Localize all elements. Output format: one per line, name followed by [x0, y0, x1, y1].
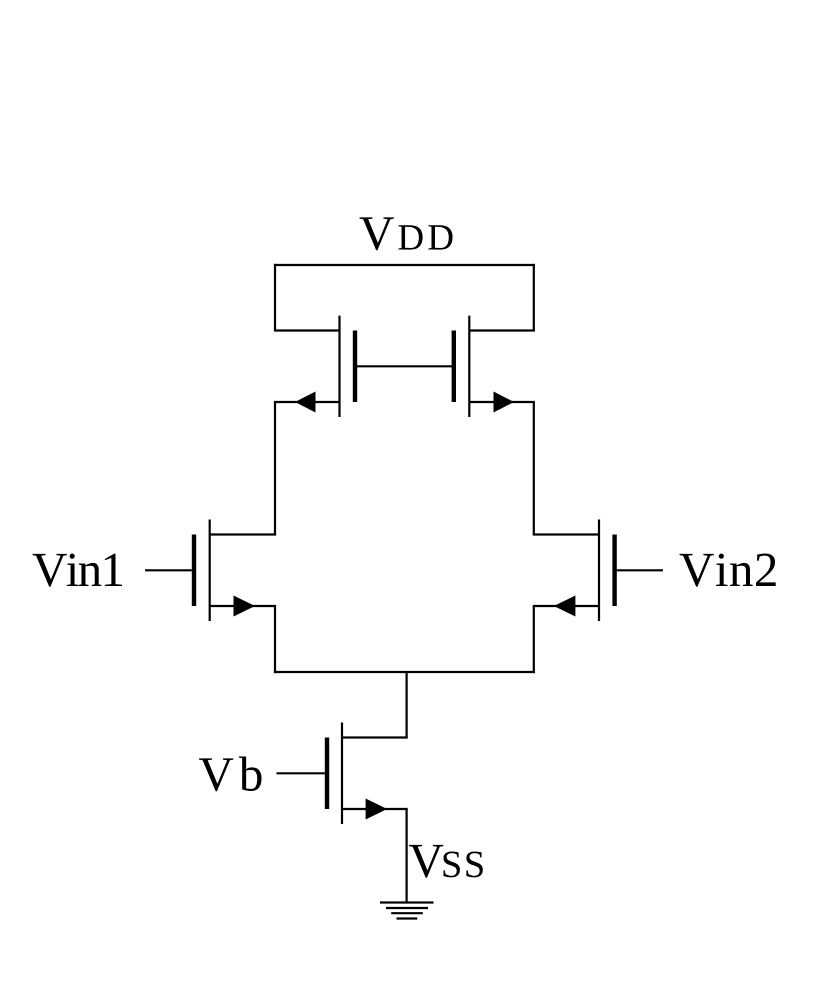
- wire left output vertical: [274, 402, 276, 535]
- transistor M4 (NMOS right input): [533, 520, 615, 622]
- wire PMOS gate tie: [355, 365, 454, 367]
- transistor M2 (PMOS right): [454, 316, 535, 417]
- transistor M1 (PMOS left): [274, 316, 355, 417]
- wire Vin2 lead: [617, 569, 663, 571]
- wire VDD rail: [274, 264, 535, 266]
- wire tail drain tap: [406, 671, 408, 738]
- transistor M3 (NMOS left input): [194, 520, 276, 622]
- wire tail source to ground: [406, 809, 408, 903]
- node Vin2 label: [680, 554, 776, 587]
- node Vb label: [199, 757, 261, 792]
- wire bottom rail: [274, 671, 535, 673]
- transistor M5 (NMOS tail current source): [327, 723, 408, 825]
- wire VDD left drop: [274, 264, 276, 331]
- ground: [380, 903, 434, 919]
- wire Vin1 lead: [145, 569, 192, 571]
- wire Vb lead: [277, 772, 325, 774]
- wire VDD right drop: [533, 264, 535, 331]
- wire left source vertical: [274, 606, 276, 673]
- node VDD label: [360, 217, 453, 250]
- node VSS label: [409, 845, 483, 878]
- wire right source vertical: [533, 606, 535, 673]
- node Vin1 label: [33, 554, 123, 587]
- wire right output vertical: [533, 402, 535, 535]
